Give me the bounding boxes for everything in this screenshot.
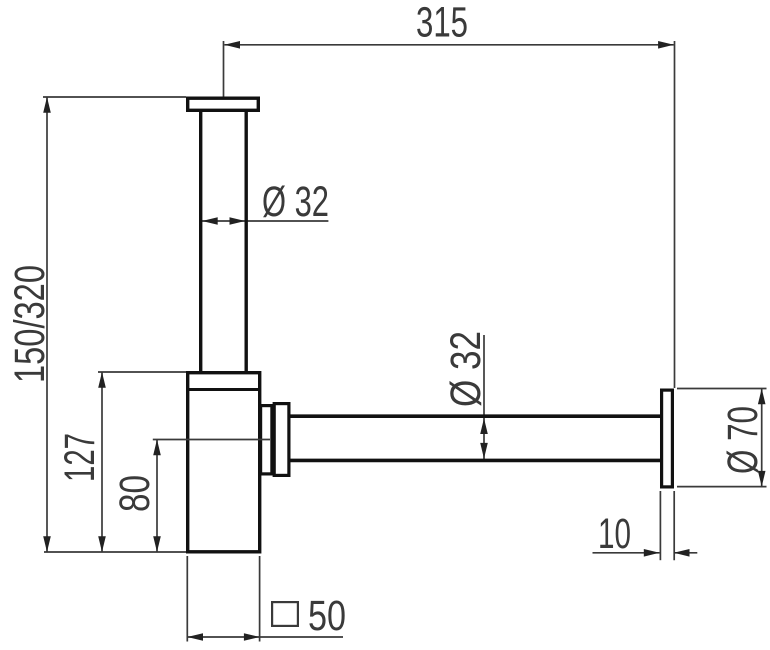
inlet pipe wall right bbox=[244, 110, 247, 371]
dim 315: extension line left (pipe axis) bbox=[223, 41, 225, 97]
horizontal pipe wall top bbox=[289, 414, 661, 418]
dim 50: extension line left bbox=[186, 556, 188, 642]
arrow 127 bottom bbox=[98, 536, 106, 552]
arrow 80 top bbox=[153, 440, 161, 456]
dim Ø70: extension line top bbox=[677, 388, 767, 390]
flange (top of inlet pipe) bbox=[188, 98, 259, 110]
arrow 50 right bbox=[244, 633, 260, 641]
dim 50: extension line right bbox=[259, 556, 261, 642]
svg-text:315: 315 bbox=[416, 0, 468, 47]
dim Ø70: dimension line bbox=[761, 389, 763, 487]
dim 315: extension line right (wall flange face) bbox=[674, 41, 676, 388]
arrow 127 top bbox=[98, 372, 106, 388]
arrow 150/320 bottom bbox=[43, 536, 51, 552]
arrow 315 right bbox=[658, 41, 674, 49]
dim 315: dimension line bbox=[224, 44, 674, 46]
siphon body bbox=[188, 373, 260, 552]
outlet spigot bbox=[261, 406, 272, 474]
dim 127: dimension line bbox=[101, 372, 103, 552]
svg-text:80: 80 bbox=[112, 475, 159, 512]
arrow Ø32 vertical-pipe left bbox=[202, 217, 218, 225]
arrow 10 right (points left) bbox=[674, 549, 690, 557]
dim 10: dimension line right segment bbox=[674, 552, 698, 554]
svg-text:Ø 70: Ø 70 bbox=[720, 406, 767, 474]
body collar line bbox=[187, 388, 261, 391]
dim 10: dimension line left segment bbox=[593, 552, 660, 554]
svg-text:10: 10 bbox=[598, 511, 631, 558]
dim 80: dimension line bbox=[156, 440, 158, 553]
dim 50: dimension line bbox=[187, 636, 343, 638]
dim 150/320: dimension line bbox=[46, 97, 48, 552]
dim 150/320 + 127 + 80: extension line bottom bbox=[44, 551, 186, 553]
dim 127: extension line top (body top) bbox=[98, 371, 186, 373]
arrow Ø32 vertical-pipe right bbox=[230, 217, 246, 225]
svg-text:Ø 32: Ø 32 bbox=[262, 179, 329, 226]
dim 80: extension line (pipe centerline) drawn over body bbox=[153, 439, 270, 441]
svg-text:50: 50 bbox=[308, 593, 346, 640]
dim Ø32 (vertical pipe): dimension line bbox=[202, 220, 328, 222]
arrow 80 bottom bbox=[153, 536, 161, 552]
dim Ø32 (horizontal pipe): leader line bbox=[483, 335, 485, 460]
arrow Ø70 bottom bbox=[758, 471, 766, 487]
inlet pipe wall left bbox=[199, 110, 202, 371]
square symbol for dim 50 bbox=[272, 602, 298, 626]
dim Ø70: extension line bottom bbox=[677, 486, 767, 488]
arrow 10 left (points right) bbox=[644, 549, 660, 557]
dim 150/320: extension line top bbox=[43, 96, 186, 98]
svg-text:150/320: 150/320 bbox=[7, 265, 54, 383]
outlet nut bbox=[274, 404, 289, 476]
arrow Ø32 horizontal-pipe up bbox=[480, 418, 488, 434]
svg-text:Ø 32: Ø 32 bbox=[443, 331, 490, 407]
dim 10: extension line right bbox=[673, 491, 675, 560]
horizontal pipe wall bottom bbox=[289, 459, 661, 463]
arrow Ø70 top bbox=[758, 389, 766, 405]
arrow Ø32 horizontal-pipe down bbox=[480, 443, 488, 459]
arrow 50 left bbox=[187, 633, 203, 641]
dim 10: extension line left bbox=[659, 491, 661, 560]
wall flange (rosette) bbox=[662, 390, 673, 487]
arrow 315 left bbox=[224, 41, 240, 49]
arrow 150/320 top bbox=[43, 97, 51, 113]
svg-text:127: 127 bbox=[57, 433, 104, 482]
